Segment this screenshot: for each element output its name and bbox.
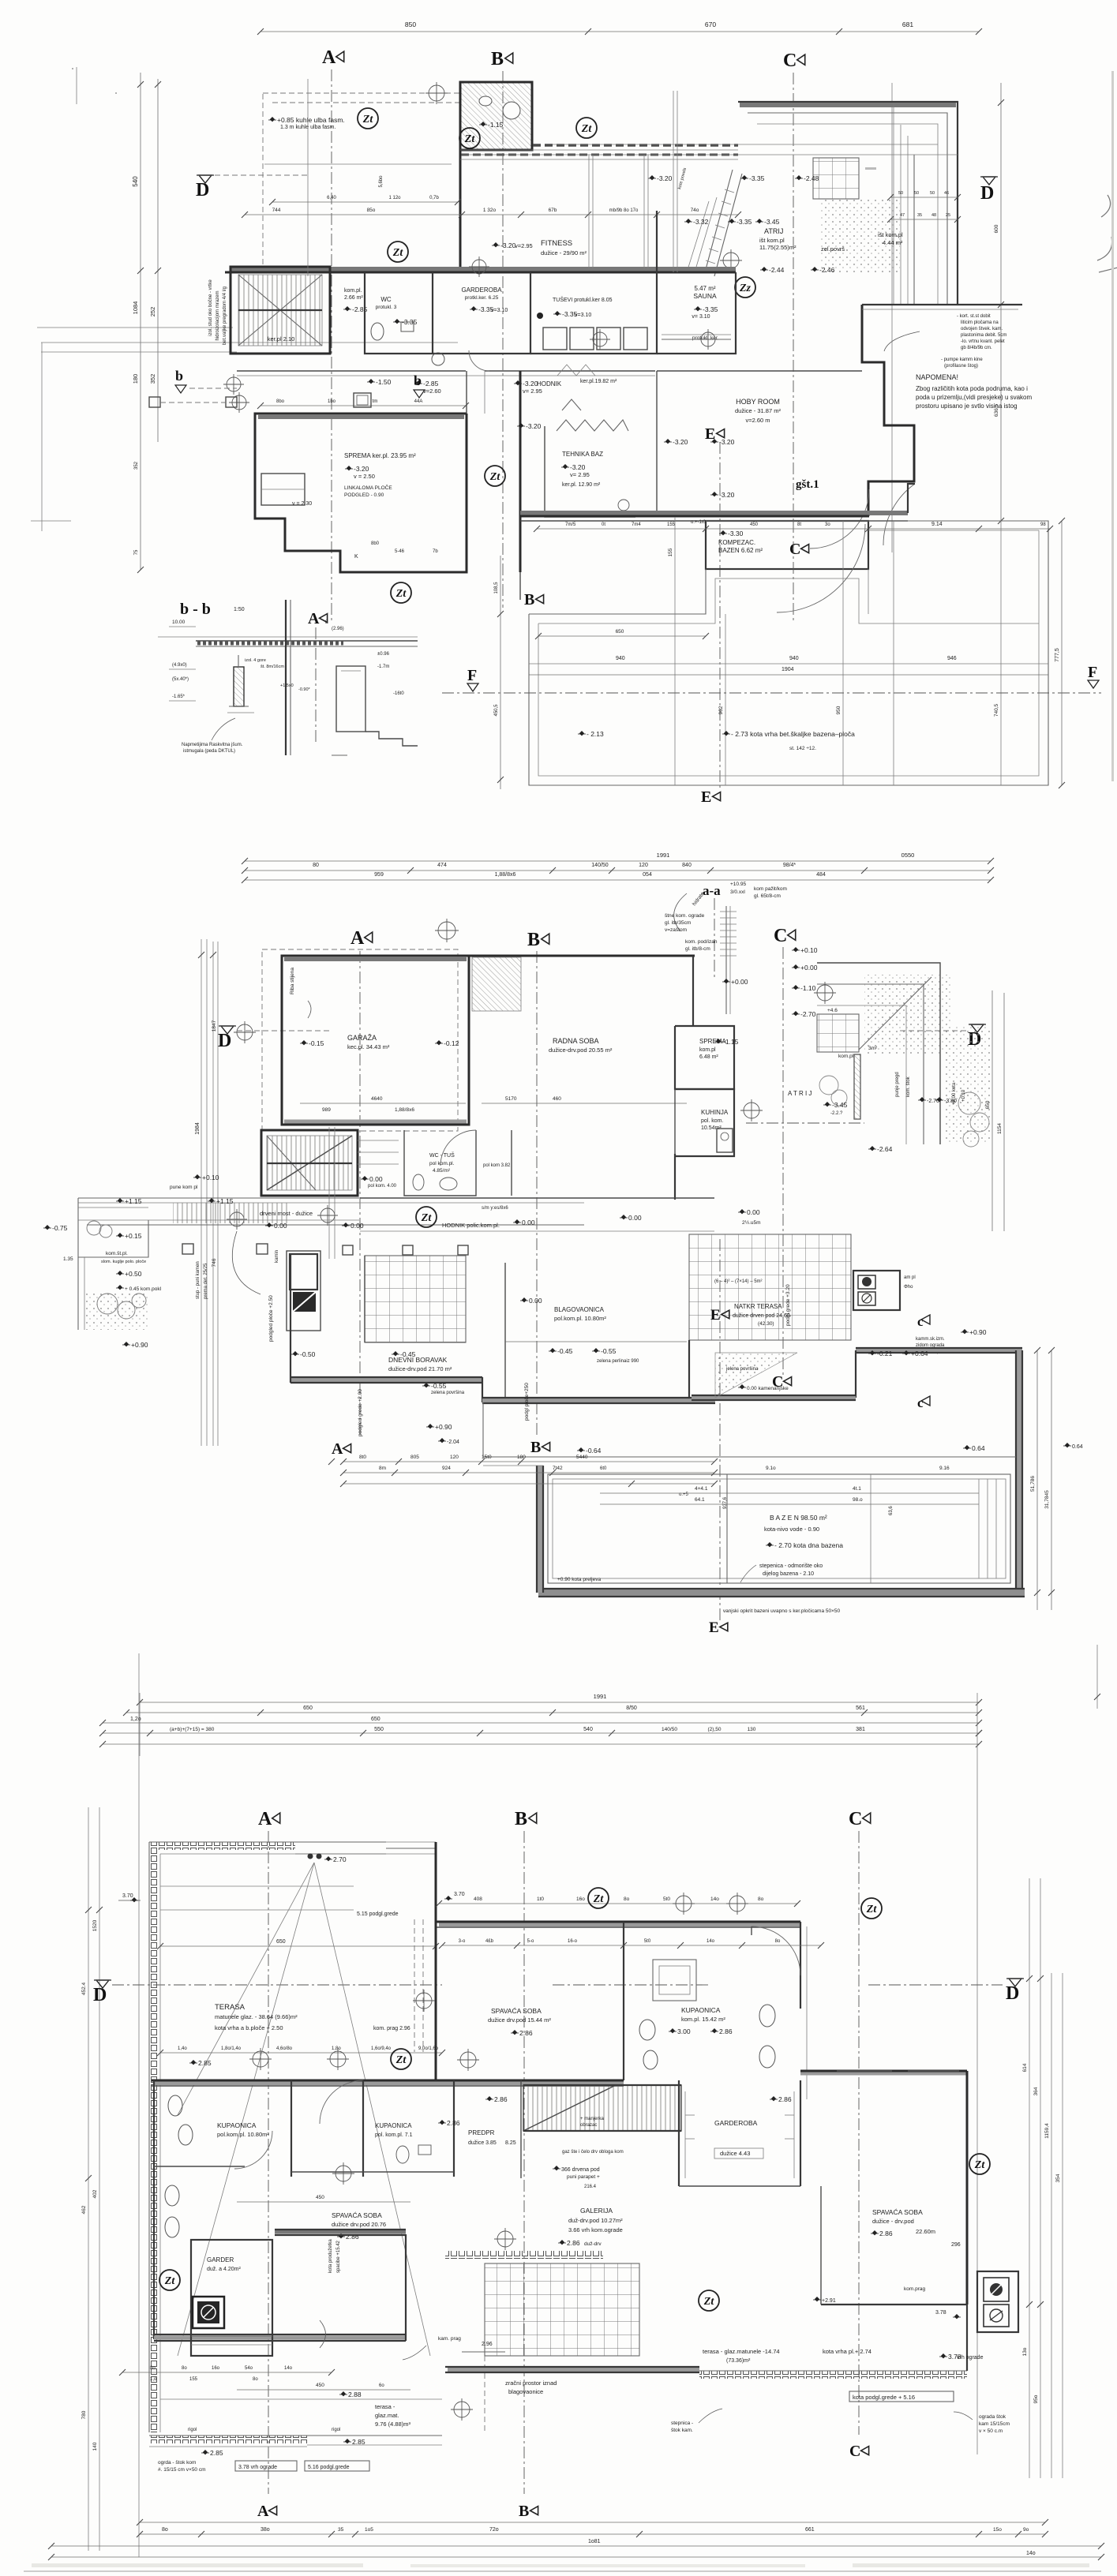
fitness right wall — [656, 211, 658, 272]
section line C lower — [793, 521, 794, 623]
svg-text:108,5: 108,5 — [494, 582, 499, 594]
svg-text:-3.20: -3.20 — [523, 380, 538, 388]
corridor fixtures circles — [227, 377, 241, 391]
svg-text:+1.15: +1.15 — [125, 1197, 142, 1205]
left margin dim verticals — [140, 73, 141, 570]
svg-text:odvojen štvek. kam.: odvojen štvek. kam. — [961, 327, 1003, 331]
terasa crenellated top edge — [149, 1842, 295, 1850]
svg-text:+0.15: +0.15 — [125, 1232, 142, 1240]
wood bridge planks — [173, 1203, 290, 1223]
svg-text:dužice drven pod 24.68: dužice drven pod 24.68 — [733, 1313, 790, 1319]
east wall top block — [800, 1922, 801, 2009]
svg-text:b: b — [414, 373, 422, 388]
svg-text:8o: 8o — [150, 2366, 156, 2371]
svg-text:+ 0.45 kom.pokl: + 0.45 kom.pokl — [125, 1286, 162, 1292]
atrium retaining wall outer — [738, 102, 958, 305]
svg-text:gaz šte i čelo drv obloga kom: gaz šte i čelo drv obloga kom — [562, 2150, 624, 2155]
svg-text:296: 296 — [951, 2242, 961, 2248]
svg-text:NATKR TERASA: NATKR TERASA — [734, 1303, 782, 1310]
svg-text:22.60m: 22.60m — [916, 2228, 935, 2235]
sprema small room — [675, 1026, 734, 1089]
terasa top thin edge to wall — [386, 1848, 436, 1849]
svg-text:2.85: 2.85 — [198, 2059, 212, 2067]
gravel stipple left — [84, 1291, 150, 1330]
wall x855 lower — [674, 1154, 676, 1200]
svg-text:-3.20: -3.20 — [570, 463, 586, 471]
svg-text:KUPAONICA: KUPAONICA — [217, 2121, 257, 2129]
fitness label — [493, 242, 498, 247]
svg-text:spacibe +15.42: spacibe +15.42 — [336, 2240, 341, 2273]
trees lower — [97, 1294, 118, 1314]
symbol Zt circle — [388, 241, 408, 262]
terasa inner lines — [160, 1853, 436, 1855]
sprema walls — [255, 414, 467, 572]
svg-text:3.00: 3.00 — [677, 2027, 691, 2035]
kuhinja room — [675, 1089, 734, 1156]
svg-text:15t0: 15t0 — [482, 1455, 492, 1460]
sprema wall poché — [258, 414, 464, 419]
equipment box right upper — [977, 2271, 1018, 2332]
svg-text:rigol: rigol — [188, 2428, 197, 2432]
svg-text:Zt: Zt — [489, 471, 501, 483]
svg-text:KOMPEZAC.: KOMPEZAC. — [718, 539, 755, 546]
svg-text:kom.pl.: kom.pl. — [344, 288, 362, 294]
svg-text:1o81: 1o81 — [588, 2539, 601, 2544]
svg-text:A: A — [350, 928, 365, 949]
svg-text:hidrate: hidrate — [692, 891, 706, 907]
green stipple triangles — [715, 1353, 797, 1398]
bottom dimension lines — [140, 2522, 1045, 2523]
hoby room walls stepped right — [656, 371, 658, 516]
svg-text:kom. štok: kom. štok — [906, 1076, 911, 1097]
svg-text:jelena površina: jelena površina — [725, 1367, 759, 1372]
svg-text:-2.85: -2.85 — [423, 380, 439, 388]
svg-text:mb/9b 8o 17o: mb/9b 8o 17o — [609, 208, 639, 213]
svg-text:450: 450 — [316, 2195, 324, 2200]
deck wall connector — [855, 1350, 856, 1398]
svg-text:744: 744 — [272, 208, 281, 213]
svg-text:1:50: 1:50 — [234, 607, 245, 612]
svg-text:1bo: 1bo — [328, 399, 336, 404]
svg-text:-0.15: -0.15 — [309, 1039, 324, 1047]
svg-text:8o: 8o — [182, 2366, 187, 2371]
svg-text:prema det. 25/25: prema det. 25/25 — [204, 1263, 208, 1299]
svg-text:452.4: 452.4 — [81, 1982, 87, 1995]
left page border lines — [41, 343, 43, 531]
svg-text:Zt: Zt — [421, 1212, 433, 1224]
svg-text:1984: 1984 — [195, 1122, 201, 1135]
svg-text:KUPAONICA: KUPAONICA — [375, 2122, 412, 2129]
deck right wall — [1017, 1350, 1022, 1593]
svg-text:(73.36)m²: (73.36)m² — [726, 2358, 751, 2364]
svg-text:C: C — [774, 926, 787, 946]
svg-text:-0.45: -0.45 — [400, 1350, 416, 1358]
crosshairs top row — [438, 922, 455, 939]
svg-text:-3.20: -3.20 — [719, 438, 735, 446]
wall between bedroom and bath — [623, 1922, 624, 2080]
svg-text:16-o: 16-o — [568, 1939, 578, 1944]
svg-text:PODGLED - 0.90: PODGLED - 0.90 — [344, 492, 384, 498]
svg-text:ogrda - štok kom: ogrda - štok kom — [158, 2460, 196, 2466]
deck bottom band — [538, 1589, 1025, 1597]
svg-text:protukl. 3: protukl. 3 — [376, 305, 397, 310]
atrium small trellis — [813, 158, 859, 199]
leader curves napomena — [884, 331, 920, 351]
svg-text:054: 054 — [643, 872, 652, 878]
svg-text:98: 98 — [1040, 522, 1046, 527]
svg-text:(42.30): (42.30) — [758, 1321, 774, 1327]
svg-text:kota podgl.grede + 5.16: kota podgl.grede + 5.16 — [853, 2394, 915, 2401]
svg-text:prostoru upisano je svtlo: prostoru upisano je svtlo visina istog — [916, 402, 1018, 410]
corridor walkway lines — [78, 1197, 359, 1199]
svg-text:b - b: b - b — [180, 601, 211, 618]
garderoba closets — [684, 2091, 686, 2178]
svg-text:tm: tm — [373, 399, 378, 404]
sink sprema — [354, 393, 371, 407]
svg-text:A T R I J: A T R I J — [788, 1090, 812, 1097]
hoby big door arc — [810, 489, 869, 549]
svg-text:600: 600 — [994, 224, 999, 233]
column squares on deck — [182, 1244, 193, 1254]
svg-text:-1.50: -1.50 — [376, 378, 392, 386]
terasa interior dim row — [160, 2052, 442, 2054]
svg-text:840: 840 — [682, 863, 692, 868]
b-b slab lines — [196, 640, 418, 642]
terasa projection marks — [308, 1854, 313, 1859]
svg-text:805: 805 — [410, 1455, 419, 1460]
faint top-left vertical — [76, 67, 77, 104]
wall horizontal y196 dashed band — [461, 154, 738, 156]
svg-text:16o: 16o — [212, 2366, 220, 2371]
svg-text:47: 47 — [900, 213, 905, 218]
svg-text:dijelog bazena - 2.10: dijelog bazena - 2.10 — [763, 1571, 814, 1577]
void dashes — [484, 2356, 485, 2431]
svg-text:650: 650 — [985, 1100, 991, 1109]
equipment boxes — [853, 1271, 900, 1310]
svg-text:Zt: Zt — [395, 2054, 407, 2066]
svg-text:-3.45: -3.45 — [764, 218, 780, 226]
south wall bedroom — [154, 2336, 406, 2340]
svg-text:GARDEROBA: GARDEROBA — [461, 286, 502, 294]
svg-text:-3.20: -3.20 — [673, 438, 688, 446]
dining west wall — [504, 1263, 506, 1397]
svg-text:kota vrha a b.ploče + 2.50: kota vrha a b.ploče + 2.50 — [215, 2024, 283, 2031]
svg-text:B A Z E N 98.50 m²: B A Z E N 98.50 m² — [770, 1514, 827, 1522]
svg-text:1,8o/1,4o: 1,8o/1,4o — [221, 2046, 242, 2051]
svg-text:stup - puni kamen: stup - puni kamen — [196, 1261, 201, 1299]
garage wall poché — [284, 957, 467, 961]
section marker D right — [983, 177, 995, 185]
svg-text:140/50: 140/50 — [662, 1727, 677, 1732]
wall x591 vertical — [466, 414, 468, 572]
svg-text:pol kom.pl.: pol kom.pl. — [429, 1161, 455, 1166]
svg-text:+0.10: +0.10 — [800, 946, 818, 954]
svg-text:GARDEROBA: GARDEROBA — [714, 2119, 758, 2127]
svg-text:bet.valjke pregradom 4/4 l/g: bet.valjke pregradom 4/4 l/g — [223, 286, 227, 345]
elev marks row — [519, 423, 523, 428]
svg-text:štne kom. ograde: štne kom. ograde — [665, 913, 705, 919]
svg-text:Zt: Zt — [362, 114, 374, 125]
svg-text:puni parapet +: puni parapet + — [567, 2174, 600, 2180]
svg-text:terasa - glaz.matunele -14.74: terasa - glaz.matunele -14.74 — [703, 2348, 780, 2355]
wall horizontal y184 dashed band — [533, 144, 738, 147]
atrij diagonal — [859, 977, 931, 1050]
svg-text:kec.pl. 34.43 m²: kec.pl. 34.43 m² — [347, 1043, 390, 1050]
svg-text:+0.10: +0.10 — [202, 1174, 219, 1181]
svg-text:Zt: Zt — [974, 2159, 986, 2171]
atrij trees — [819, 1076, 838, 1095]
trellis pergola living — [365, 1256, 466, 1342]
symbol Zt circle — [391, 582, 411, 603]
svg-text:-3.35: -3.35 — [737, 218, 752, 226]
svg-text:podgl ploče+250: podgl ploče+250 — [524, 1383, 530, 1421]
svg-text:istmugala (peda DKTUL): istmugala (peda DKTUL) — [183, 749, 235, 754]
svg-text:1,88/8x6: 1,88/8x6 — [495, 872, 516, 878]
svg-text:E: E — [710, 1307, 721, 1324]
svg-text:4t.1: 4t.1 — [853, 1486, 861, 1492]
svg-text:252: 252 — [149, 307, 156, 317]
svg-text:pol kom 3.82: pol kom 3.82 — [483, 1163, 511, 1168]
fitness thin verticals — [588, 155, 590, 269]
svg-text:14o: 14o — [284, 2366, 293, 2371]
svg-text:777,5: 777,5 — [1055, 648, 1060, 662]
svg-text:381: 381 — [856, 1727, 865, 1732]
right dim vertical x1268 — [1000, 83, 1002, 521]
atrium right verticals — [893, 104, 894, 305]
left wall main block — [153, 2080, 155, 2339]
svg-text:3/0.xxl: 3/0.xxl — [730, 889, 745, 895]
svg-text:v = 2.30: v = 2.30 — [292, 501, 312, 507]
svg-text:9.1o: 9.1o — [766, 1466, 776, 1471]
svg-text:2.88: 2.88 — [348, 2391, 362, 2398]
svg-text:duž-drv.pod 10.27m²: duž-drv.pod 10.27m² — [568, 2217, 623, 2224]
svg-text:924: 924 — [442, 1466, 451, 1471]
svg-text:SPAVAĆA SOBA: SPAVAĆA SOBA — [491, 2007, 542, 2015]
svg-text:2.86: 2.86 — [447, 2119, 460, 2127]
svg-text:67b: 67b — [549, 208, 557, 213]
fixtures top-right room — [503, 102, 520, 119]
svg-text:A: A — [332, 1440, 343, 1458]
svg-text:kom.št.pl.: kom.št.pl. — [106, 1251, 128, 1256]
svg-text:D: D — [196, 180, 209, 200]
svg-text:6t0: 6t0 — [600, 1466, 607, 1471]
right short top lines — [1096, 1645, 1098, 1709]
svg-text:c: c — [917, 1314, 924, 1329]
svg-text:dužice-drv.pod 21.70 m²: dužice-drv.pod 21.70 m² — [388, 1365, 452, 1372]
svg-text:GARDER: GARDER — [207, 2256, 234, 2263]
pool inner verticals — [726, 1474, 728, 1583]
svg-text:8o: 8o — [162, 2527, 168, 2533]
sauna room — [657, 272, 736, 354]
shower stalls — [543, 328, 567, 350]
right bottom inner dim — [600, 1492, 979, 1494]
svg-text:A: A — [258, 1809, 272, 1829]
svg-text:614: 614 — [1022, 2063, 1028, 2072]
svg-text:10.00: 10.00 — [172, 620, 186, 625]
svg-text:50: 50 — [914, 191, 919, 196]
grid vertical x853 — [673, 91, 674, 272]
svg-text:7t42: 7t42 — [553, 1466, 563, 1471]
svg-text:3m²: 3m² — [868, 1046, 878, 1051]
svg-text:protkl.ker. 6.25: protkl.ker. 6.25 — [465, 295, 499, 301]
svg-text:Zt: Zt — [866, 1904, 878, 1915]
svg-text:kom pažit/kom: kom pažit/kom — [754, 886, 787, 892]
svg-text:408: 408 — [474, 1896, 482, 1902]
svg-text:dužice 4.43: dužice 4.43 — [720, 2150, 750, 2157]
long wall y654 poché — [520, 511, 908, 515]
sprema closet — [261, 474, 305, 505]
svg-text:-3.30: -3.30 — [728, 530, 744, 537]
svg-text:1520: 1520 — [92, 1919, 98, 1931]
svg-text:blagovaonice: blagovaonice — [508, 2388, 543, 2395]
terasa diagonals — [178, 1863, 314, 2356]
svg-text:kom.pl. 15.42 m²: kom.pl. 15.42 m² — [681, 2016, 725, 2023]
svg-text:-0.90*: -0.90* — [298, 687, 311, 692]
dim row y806 — [538, 635, 706, 637]
svg-text:gl. itb/8-cm: gl. itb/8-cm — [685, 946, 710, 952]
svg-text:-0.12: -0.12 — [444, 1039, 459, 1047]
terrace labels left — [45, 1225, 50, 1230]
svg-text:Riba stijena: Riba stijena — [290, 968, 295, 994]
svg-text:15o: 15o — [993, 2527, 1002, 2533]
svg-text:gb 8/4b/9b cm.: gb 8/4b/9b cm. — [961, 346, 992, 350]
svg-text:1,8o: 1,8o — [332, 2046, 341, 2051]
svg-text:xxx: xxx — [647, 1458, 648, 1458]
svg-text:išt kom.pl: išt kom.pl — [759, 237, 785, 244]
svg-text:st. 142 ÷12.: st. 142 ÷12. — [789, 746, 816, 751]
right dims upper — [991, 990, 993, 1231]
svg-text:8o: 8o — [775, 1939, 781, 1944]
svg-text:c: c — [917, 1395, 924, 1410]
svg-text:-3.20: -3.20 — [719, 491, 735, 499]
svg-text:+0.64: +0.64 — [911, 1350, 928, 1357]
symbol Zt circle — [699, 2290, 719, 2311]
svg-text:TERASA: TERASA — [215, 2003, 246, 2012]
svg-text:354: 354 — [1055, 2173, 1061, 2182]
zigzag drainage symbol — [557, 420, 628, 431]
svg-text:1991: 1991 — [594, 1693, 607, 1700]
svg-text:C: C — [789, 541, 800, 558]
atrij fence hatch strip — [854, 1054, 860, 1119]
svg-text:vanjski opkrit bazeni uvapn: vanjski opkrit bazeni uvapno s ker.ploči… — [723, 1608, 841, 1614]
svg-text:NAPOMENA!: NAPOMENA! — [916, 373, 958, 381]
svg-text:E: E — [705, 425, 715, 443]
svg-text:95o: 95o — [1033, 2394, 1039, 2403]
svg-text:dužice drv.pod 20.76: dužice drv.pod 20.76 — [332, 2221, 386, 2228]
terasa mid dim — [160, 1945, 436, 1947]
D chain line — [112, 1984, 442, 1986]
corridor labels — [416, 380, 421, 385]
tehnika fixtures — [618, 500, 629, 511]
stair treads — [238, 275, 322, 346]
terrace left block — [78, 1198, 148, 1257]
svg-text:155: 155 — [189, 2377, 198, 2382]
D markers — [96, 1980, 109, 1988]
top dimension band — [139, 1693, 141, 1756]
svg-text:8.25: 8.25 — [505, 2140, 516, 2146]
svg-text:940: 940 — [789, 656, 799, 661]
far bottom horizontal rule — [24, 2570, 1101, 2572]
svg-text:zelena perlinaiz 990: zelena perlinaiz 990 — [597, 1359, 639, 1364]
dining dim lines — [505, 1341, 687, 1342]
svg-text:gšt.1: gšt.1 — [796, 478, 819, 491]
left bathroom fixtures — [168, 2095, 182, 2116]
step wall x611 — [482, 1377, 483, 1402]
svg-text:Zt: Zt — [464, 133, 476, 145]
atrium stipple patch — [821, 197, 900, 272]
elev marks mid — [440, 2120, 444, 2125]
svg-text:14o: 14o — [707, 1939, 715, 1944]
svg-text:2½.u5m: 2½.u5m — [742, 1219, 761, 1226]
svg-text:98.o: 98.o — [853, 1497, 863, 1503]
svg-text:120: 120 — [639, 863, 648, 868]
WC room walls — [365, 272, 433, 354]
svg-text:0.00: 0.00 — [274, 1222, 287, 1230]
svg-text:D: D — [218, 1031, 231, 1051]
svg-text:TEHNIKA BAZ: TEHNIKA BAZ — [562, 451, 603, 458]
svg-text:SPAVAĆA SOBA: SPAVAĆA SOBA — [332, 2211, 382, 2219]
svg-text:+ manjerka: + manjerka — [580, 2117, 605, 2121]
svg-text:80: 80 — [313, 863, 319, 868]
svg-text:5170: 5170 — [505, 1096, 517, 1102]
section line E vertical — [719, 1239, 721, 1622]
svg-text:-3.32: -3.32 — [693, 218, 709, 226]
svg-text:-0.50: -0.50 — [300, 1350, 316, 1358]
svg-text:8o: 8o — [253, 2377, 258, 2382]
symbol Zt circle — [485, 466, 505, 486]
svg-text:-lo. vrtnu kvant. pelet: -lo. vrtnu kvant. pelet — [961, 339, 1005, 344]
svg-text:+0.90: +0.90 — [969, 1328, 987, 1336]
svg-text:3.70: 3.70 — [454, 1892, 465, 1897]
svg-text:5440: 5440 — [576, 1455, 588, 1460]
dim row y670 — [537, 528, 1050, 530]
section line B vertical — [502, 71, 504, 608]
svg-text:am pl: am pl — [904, 1275, 916, 1280]
svg-text:650: 650 — [303, 1705, 313, 1711]
wall top-right room — [460, 82, 532, 150]
svg-text:gl. 65t/8-cm: gl. 65t/8-cm — [754, 893, 781, 899]
b-b wall vertical — [285, 600, 287, 755]
svg-text:5.47 m²: 5.47 m² — [694, 285, 715, 292]
svg-text:pol. kom.: pol. kom. — [701, 1118, 723, 1124]
svg-text:50: 50 — [930, 191, 935, 196]
svg-text:4.85/m²: 4.85/m² — [433, 1168, 451, 1174]
main wall y345 — [225, 271, 736, 274]
svg-text:HODNIK: HODNIK — [537, 380, 562, 388]
svg-text:kamm.sk.izm.: kamm.sk.izm. — [916, 1337, 945, 1342]
svg-text:kota vrha pl.+ 2.74: kota vrha pl.+ 2.74 — [823, 2348, 871, 2355]
svg-text:352: 352 — [149, 374, 156, 384]
svg-text:140: 140 — [92, 2442, 98, 2451]
svg-text:462: 462 — [81, 2205, 87, 2214]
kupaonica fixtures — [759, 2005, 775, 2027]
svg-text:pol.kom.pl. 10.80m²: pol.kom.pl. 10.80m² — [217, 2131, 269, 2138]
svg-text:matunele glaz. - 38.64 (9.66: matunele glaz. - 38.64 (9.66)m² — [215, 2013, 298, 2020]
svg-text:3.70: 3.70 — [122, 1893, 133, 1899]
svg-text:0,7b: 0,7b — [429, 196, 439, 200]
symbol Zt circle — [459, 128, 480, 148]
svg-text:zelena površina: zelena površina — [431, 1391, 465, 1395]
D marker right — [971, 1024, 984, 1032]
svg-text:550: 550 — [374, 1727, 384, 1732]
svg-text:A: A — [257, 2503, 269, 2520]
tusevi room — [530, 272, 657, 354]
svg-text:B: B — [519, 2503, 529, 2520]
svg-text:1,2o: 1,2o — [130, 1717, 141, 1722]
svg-text:46: 46 — [944, 191, 949, 196]
triangles corridor — [557, 365, 595, 376]
svg-text:K: K — [354, 554, 358, 560]
